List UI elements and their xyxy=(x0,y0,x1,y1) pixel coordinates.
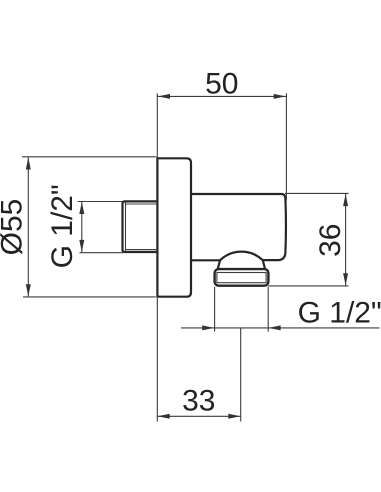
dim G1/2 bottom: arrow pointing left xyxy=(269,325,281,330)
dim 36: arrow down xyxy=(343,273,348,285)
dim O55: arrow up xyxy=(26,158,31,170)
dim G1/2 left: extension line bottom xyxy=(80,252,124,254)
dim 50: dimension line xyxy=(157,95,286,97)
dim 33: dimension line xyxy=(157,415,240,417)
dim O55: arrow down xyxy=(26,284,31,296)
dim 33: arrow right xyxy=(228,414,240,419)
dim 50: extension line left xyxy=(156,93,158,157)
dim 50: arrow right xyxy=(274,94,286,99)
nut inner chamfer rect xyxy=(217,273,266,283)
dim 36: arrow up xyxy=(343,194,348,206)
dim O55: extension line top xyxy=(22,156,156,158)
dim O55: extension line bottom xyxy=(23,296,156,298)
dim G1/2 bottom: arrow pointing right xyxy=(202,325,214,330)
dim 36: dimension line xyxy=(345,194,347,286)
dim 36: extension line top xyxy=(285,192,349,194)
dim G1/2 bottom: extension line right xyxy=(267,287,269,332)
svg-text:33: 33 xyxy=(182,385,215,418)
dim G1/2 bottom: extension line left xyxy=(214,287,216,332)
nut (outlet coupling) xyxy=(215,269,269,286)
svg-text:G 1/2": G 1/2" xyxy=(298,296,381,329)
flange (wall plate, side view) xyxy=(157,158,191,296)
dim G1/2 bottom: dimension line xyxy=(181,327,380,329)
dim G1/2 left: arrow down xyxy=(79,240,84,252)
svg-text:36: 36 xyxy=(314,224,347,257)
dim 33: extension line right xyxy=(240,328,242,421)
outlet neck (flared) xyxy=(218,260,265,268)
dim G1/2 left: extension line top xyxy=(78,201,123,203)
body (horizontal cylinder) xyxy=(191,194,286,260)
dim 36: extension line bottom xyxy=(268,285,348,287)
svg-text:Ø55: Ø55 xyxy=(0,199,29,256)
dim G1/2 left: dimension line xyxy=(81,202,83,252)
dim 33: extension line left xyxy=(156,298,158,422)
thread root thin lines + chamfer xyxy=(126,203,158,251)
dim 33: arrow left xyxy=(158,414,170,419)
svg-text:50: 50 xyxy=(205,67,238,100)
svg-text:G 1/2": G 1/2" xyxy=(46,184,79,268)
dim G1/2 left: arrow up xyxy=(79,202,84,214)
outlet cone dome xyxy=(220,252,263,261)
threaded stub G 1/2 male (crest outline) xyxy=(123,201,158,252)
dim O55: dimension line xyxy=(27,157,29,296)
dim 50: extension line right xyxy=(285,93,287,200)
dim 50: arrow left xyxy=(158,94,170,99)
